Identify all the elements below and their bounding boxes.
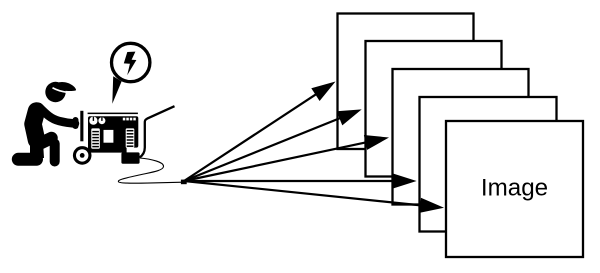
frame square 2 [366, 41, 502, 177]
bubble tail [112, 76, 121, 104]
body [88, 116, 138, 152]
arm [39, 107, 75, 124]
arrow origin junction [181, 180, 187, 185]
base foot [121, 152, 139, 163]
arrow 1 [184, 82, 336, 182]
arrow 3 [184, 135, 389, 181]
frame square 1 (back) [338, 14, 474, 150]
gauge right [98, 117, 105, 124]
cap brim [53, 82, 77, 91]
arrow 2 [184, 109, 362, 181]
generator [73, 106, 175, 165]
arrow 4 [184, 173, 417, 188]
hip connector [30, 142, 44, 158]
wheel [73, 146, 92, 165]
head [45, 82, 65, 102]
speech bubble [112, 43, 150, 104]
frame handle [140, 106, 175, 157]
lightning bolt [124, 52, 137, 76]
frame square 3 [393, 69, 529, 205]
lower leg (vertical shin) [50, 144, 60, 162]
hand [73, 120, 79, 126]
middle panel [104, 130, 114, 143]
trolley post [80, 111, 83, 142]
indicator dots [123, 118, 126, 121]
svg-text:Image: Image [481, 174, 548, 201]
kneeling boot [18, 153, 36, 166]
right vent [126, 128, 135, 148]
person (kneeling technician) [18, 82, 76, 162]
gauge left [89, 117, 97, 125]
frame square 4 [420, 97, 557, 232]
torso [33, 111, 37, 140]
left vent [91, 128, 100, 148]
thigh [39, 138, 52, 144]
power cord [118, 158, 183, 183]
frame top line [88, 113, 138, 115]
frame square 5 (front, "Image") [446, 121, 583, 257]
arrow 5 [184, 181, 444, 213]
cap brim slit [53, 88, 77, 93]
